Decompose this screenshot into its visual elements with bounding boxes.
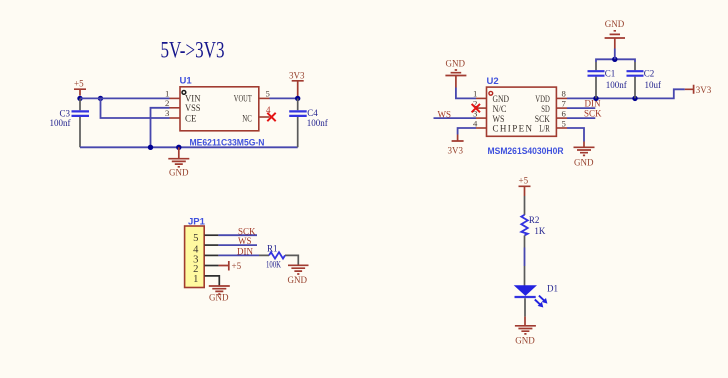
pin 5 L/R [539, 118, 567, 133]
svg-text:GND: GND [209, 293, 229, 303]
svg-text:100nf: 100nf [50, 118, 71, 128]
wire VDD rail to caps and 3V3 [567, 89, 685, 98]
svg-text:WS: WS [238, 236, 252, 246]
svg-text:3: 3 [165, 108, 169, 118]
ground GND (U2 pin5) [574, 142, 595, 168]
pin 2 N/C with no-ERC cross [472, 98, 507, 114]
power 3V3 (U1 output) [289, 70, 305, 98]
capacitor C4 [289, 98, 328, 147]
svg-text:C1: C1 [605, 69, 616, 79]
svg-text:1: 1 [193, 274, 198, 285]
svg-text:JP1: JP1 [188, 217, 206, 228]
node C2 bottom junction [632, 96, 637, 101]
pin 4 CHIPEN [473, 118, 533, 133]
svg-text:MSM261S4030H0R: MSM261S4030H0R [488, 146, 564, 157]
svg-text:SCK: SCK [238, 226, 256, 236]
svg-text:N/C: N/C [493, 104, 507, 114]
svg-text:100nf: 100nf [606, 80, 627, 90]
svg-text:R2: R2 [529, 215, 540, 225]
svg-text:1: 1 [165, 89, 169, 99]
svg-text:DIN: DIN [237, 247, 253, 257]
pin 2 of JP1 [193, 264, 218, 275]
svg-text:GND: GND [515, 336, 535, 346]
wire branch to CE pin3 [101, 98, 170, 118]
svg-text:5: 5 [266, 89, 270, 99]
power 3V3 (right) [685, 85, 712, 95]
part name ME6211C33M5G-N [190, 137, 265, 148]
pin 1 GND [473, 89, 509, 104]
svg-text:U1: U1 [180, 76, 193, 87]
svg-text:SCK: SCK [535, 114, 550, 124]
wire net DIN [218, 247, 259, 257]
svg-text:+5: +5 [519, 176, 529, 186]
svg-text:5V->3V3: 5V->3V3 [161, 37, 225, 62]
node top GND junction [612, 57, 617, 62]
ground GND (R1) [288, 265, 309, 285]
svg-text:C4: C4 [307, 108, 318, 118]
ground GND (D1) [515, 317, 536, 346]
ground GND (JP1) [209, 286, 230, 303]
wire net SCK [567, 108, 602, 118]
svg-text:3V3: 3V3 [289, 70, 305, 80]
svg-text:2: 2 [165, 98, 169, 108]
svg-text:+5: +5 [232, 261, 242, 271]
power +5 (JP1) [219, 261, 242, 271]
part name MSM261S4030H0R [488, 146, 564, 157]
svg-text:ME6211C33M5G-N: ME6211C33M5G-N [190, 137, 265, 148]
svg-text:GND: GND [493, 94, 510, 104]
microphone U2 box [487, 76, 557, 136]
svg-text:NC: NC [242, 114, 252, 124]
wire GND to U2 pin1 [456, 88, 476, 99]
svg-text:D1: D1 [547, 283, 558, 293]
wire cap tops [596, 59, 635, 62]
pin 4 NC with no-ERC cross [242, 105, 275, 124]
ground GND (U1) [168, 147, 189, 177]
svg-text:4: 4 [473, 118, 478, 128]
wire L/R to GND [567, 128, 584, 142]
node CE branch junction [98, 96, 103, 101]
node GND stub junction [176, 145, 181, 150]
title 5V->3V3 [161, 37, 225, 62]
wire net WS [434, 109, 477, 119]
ground GND (caps, inverted) [605, 19, 625, 59]
pin 1 VIN [165, 89, 201, 104]
power +5 (LED feed) [519, 176, 531, 196]
svg-text:100K: 100K [266, 259, 281, 269]
node VOUT/C4 junction [295, 96, 300, 101]
svg-text:6: 6 [561, 108, 566, 118]
wire net SCK [218, 226, 257, 236]
pin 5 of JP1 [193, 233, 218, 244]
node +5/C3 junction [77, 96, 82, 101]
pin 4 of JP1 [193, 244, 218, 255]
svg-text:U2: U2 [487, 76, 499, 87]
resistor R1 [259, 244, 298, 270]
capacitor C3 [50, 98, 90, 147]
node C1 bottom junction [593, 96, 598, 101]
svg-text:3V3: 3V3 [696, 85, 712, 95]
capacitor C2 [627, 62, 662, 98]
svg-text:VOUT: VOUT [234, 94, 252, 104]
svg-text:WS: WS [438, 109, 452, 119]
pin 6 SCK with net label [535, 108, 567, 124]
svg-text:VIN: VIN [185, 94, 201, 104]
svg-text:5: 5 [561, 118, 565, 128]
svg-text:VSS: VSS [185, 103, 201, 113]
svg-text:DIN: DIN [585, 99, 601, 109]
svg-text:VDD: VDD [535, 94, 550, 104]
wire R2 to D1 [524, 248, 526, 267]
svg-text:CHIPEN: CHIPEN [493, 124, 533, 134]
svg-text:L/R: L/R [539, 124, 550, 134]
wire net WS [218, 236, 257, 246]
svg-text:GND: GND [605, 19, 625, 29]
svg-text:3: 3 [473, 108, 477, 118]
svg-text:SD: SD [541, 104, 550, 114]
node VSS/rail junction [148, 145, 153, 150]
pin 1 of JP1 [193, 274, 219, 286]
LED D1 [515, 266, 559, 317]
svg-text:10uf: 10uf [645, 80, 662, 90]
wire +5 to VIN pin1 [80, 97, 170, 99]
pin 3 of JP1 [193, 255, 218, 266]
pin 7 SD with net label DIN [541, 98, 567, 114]
wire ground rail (C3 to C4) [80, 146, 298, 148]
svg-text:C2: C2 [644, 69, 655, 79]
svg-text:WS: WS [493, 114, 505, 124]
power 3V3 (U2 enable) [448, 135, 464, 156]
ground GND (U2 pin1, inverted) [445, 58, 466, 87]
svg-text:C3: C3 [60, 108, 71, 118]
svg-text:GND: GND [169, 167, 189, 177]
pin 3 CE [165, 108, 197, 124]
svg-text:5: 5 [193, 233, 198, 244]
wire net DIN [567, 99, 601, 109]
pin 2 VSS [165, 98, 201, 113]
svg-text:CE: CE [185, 114, 197, 124]
pin 5 VOUT [234, 89, 270, 104]
svg-text:SCK: SCK [584, 108, 602, 118]
svg-text:8: 8 [561, 89, 566, 99]
capacitor C1 [588, 62, 627, 98]
svg-text:3V3: 3V3 [448, 146, 464, 156]
wire VOUT to 3V3/C4 [270, 97, 298, 99]
svg-text:1K: 1K [534, 226, 546, 236]
svg-text:GND: GND [446, 58, 466, 68]
op-amp U1 box [180, 76, 259, 131]
svg-text:GND: GND [574, 157, 594, 167]
svg-text:GND: GND [288, 275, 308, 285]
svg-text:1: 1 [473, 89, 477, 99]
pin 8 VDD [535, 89, 567, 104]
wire CHIPEN to 3V3 [458, 128, 476, 135]
svg-text:7: 7 [561, 98, 566, 108]
svg-text:100nf: 100nf [307, 118, 328, 128]
connector JP1 box [185, 217, 206, 288]
pin 3 WS with net label [473, 108, 505, 124]
resistor R2 [521, 196, 546, 248]
power +5 (U1 input) [74, 79, 86, 96]
svg-text:+5: +5 [74, 79, 84, 89]
wire VSS pin2 to ground rail [151, 108, 170, 148]
svg-text:R1: R1 [267, 244, 278, 254]
